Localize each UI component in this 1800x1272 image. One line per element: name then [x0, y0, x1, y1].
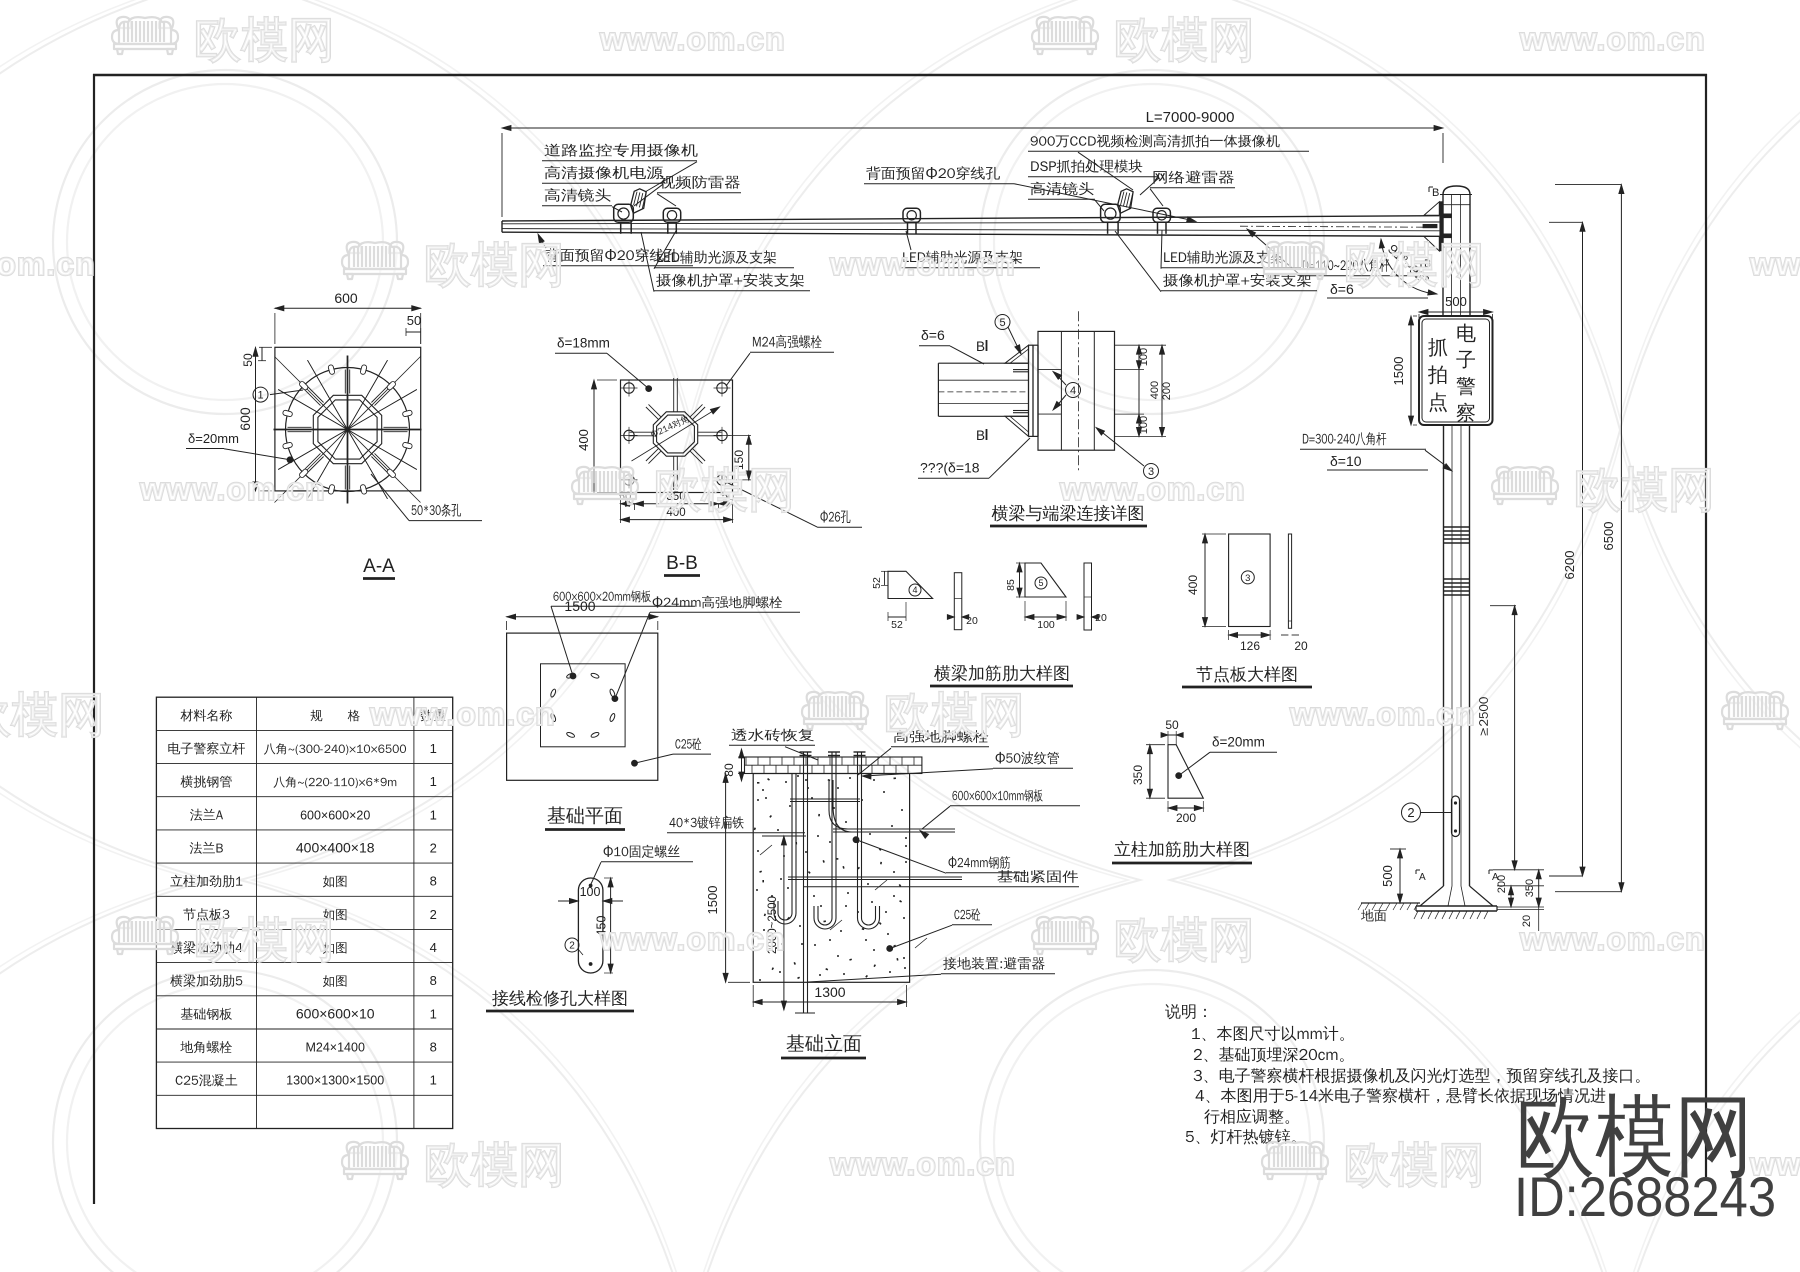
svg-text:100: 100	[1138, 416, 1150, 434]
svg-text:B: B	[976, 428, 985, 443]
balloon 2 access	[565, 938, 579, 952]
ground line	[1361, 902, 1420, 904]
svg-text:1500: 1500	[1391, 357, 1406, 386]
pole shaft below sign	[1443, 425, 1445, 886]
dimension L=7000-9000	[502, 127, 1443, 129]
tie bar lower	[788, 876, 962, 878]
svg-text:δ=6: δ=6	[1330, 281, 1354, 297]
svg-text:www.om.cn: www.om.cn	[1289, 696, 1476, 732]
svg-text:400: 400	[1186, 575, 1200, 595]
foundation plan outer square	[507, 633, 658, 780]
dim 6500	[1620, 185, 1622, 892]
svg-text:1300: 1300	[814, 984, 845, 1000]
label M24 bolt	[753, 335, 822, 349]
svg-text:50: 50	[1165, 718, 1179, 732]
gusset bottom at beam end	[1424, 237, 1439, 252]
left bolt hook	[791, 774, 793, 914]
label: road camera	[545, 143, 698, 157]
foundation plan dim 1500	[507, 616, 658, 618]
svg-text:100: 100	[1037, 619, 1055, 631]
40x3 flat iron horizontal	[833, 828, 955, 830]
label: HD camera power	[545, 166, 663, 180]
LED flash unit 1	[663, 208, 680, 234]
svg-text:5: 5	[1038, 578, 1043, 588]
svg-text:ID:2688243: ID:2688243	[1514, 1165, 1776, 1228]
title node plate	[1196, 666, 1296, 683]
notes 说明	[1165, 1004, 1206, 1019]
svg-text:400×400×18: 400×400×18	[296, 840, 375, 856]
dim 500 above ground	[1399, 849, 1401, 903]
pole top shaft	[1442, 195, 1444, 317]
svg-text:1: 1	[430, 1006, 437, 1021]
svg-text:www.om.cn: www.om.cn	[829, 1146, 1016, 1182]
label 600x600x20 plate	[553, 590, 650, 602]
label: network arrester	[1153, 170, 1233, 183]
svg-text:δ=18mm: δ=18mm	[557, 336, 610, 351]
label C25 concrete (plan)	[675, 738, 701, 750]
gusset 5 edge strip	[1084, 563, 1092, 630]
flange bolts	[1443, 214, 1452, 218]
pole bands	[1444, 526, 1470, 528]
label phi50 tube	[996, 752, 1059, 765]
cantilever beam (elevation)	[502, 216, 1440, 221]
B-B bolts	[624, 383, 634, 393]
svg-text:200: 200	[1496, 875, 1508, 893]
svg-text:2: 2	[1407, 805, 1414, 820]
node plate edge strip	[1288, 534, 1291, 628]
svg-text:δ=20mm: δ=20mm	[1212, 735, 1265, 750]
svg-text:www.om.cn: www.om.cn	[1519, 921, 1706, 957]
label: rear reserved hole (bottom-left)	[545, 248, 679, 262]
elevation concrete block	[753, 774, 909, 983]
label 600x600x10 plate	[952, 789, 1042, 802]
label: camera housing 2	[1163, 273, 1311, 287]
svg-text:100: 100	[1138, 348, 1150, 366]
svg-text:6500: 6500	[1601, 522, 1616, 551]
light watermark lattice: sofa logos and www.om.cn	[112, 17, 330, 63]
A-A dim 600 left	[255, 347, 257, 491]
node plate dim 126	[1229, 634, 1271, 636]
label: camera housing 1	[656, 273, 804, 287]
node plate 3	[1229, 534, 1271, 627]
svg-text:2: 2	[430, 841, 437, 856]
svg-text:3: 3	[1245, 573, 1250, 584]
A-A pole octagon	[313, 395, 381, 463]
svg-text:200: 200	[1176, 811, 1196, 825]
svg-text:1: 1	[430, 1073, 437, 1088]
B-B dim 400 left	[593, 380, 595, 493]
balloon 4	[1066, 383, 1081, 398]
svg-text:8: 8	[430, 1040, 437, 1055]
svg-text:www.om.cn: www.om.cn	[1749, 246, 1800, 282]
svg-text:85: 85	[1005, 579, 1017, 591]
connection: top gusset 5	[1005, 345, 1029, 363]
svg-text:δ=20mm: δ=20mm	[188, 431, 239, 446]
svg-text:126: 126	[1240, 639, 1260, 653]
connection: beam tube	[938, 362, 1028, 364]
A-A spokes	[274, 429, 422, 431]
balloon 5	[995, 315, 1010, 330]
bolt top nuts	[800, 751, 812, 753]
label: HD lens	[545, 188, 611, 202]
connection right dims 100/400/200/100	[1115, 344, 1145, 346]
A-A dim 600 top	[275, 307, 421, 309]
B-B dim 400 bottom	[621, 519, 733, 521]
label phi10 screw	[604, 845, 680, 858]
label phi26 hole	[820, 510, 850, 523]
B-B ribs	[698, 435, 722, 437]
label C25 concrete elev	[954, 908, 980, 920]
svg-text:600×600×10: 600×600×10	[296, 1005, 375, 1021]
svg-text:www.om.cn: www.om.cn	[829, 246, 1016, 282]
svg-text:www.om.cn: www.om.cn	[1059, 471, 1246, 507]
balloon 3	[1144, 464, 1159, 479]
pole base plate	[1416, 905, 1497, 907]
svg-text:50: 50	[407, 313, 421, 328]
svg-text:www.om.cn: www.om.cn	[369, 696, 556, 732]
label foundation fastener	[997, 870, 1078, 883]
gusset top at beam end	[1424, 202, 1439, 215]
foundation plan plate square	[541, 664, 626, 747]
svg-text:B: B	[976, 339, 985, 354]
svg-text:5: 5	[999, 317, 1005, 329]
big dark watermark 欧模网 ID:2688243	[1521, 1094, 1745, 1180]
right dims 200/350/20 at base	[1497, 885, 1544, 887]
svg-text:???(δ=18: ???(δ=18	[920, 460, 980, 476]
svg-text:A: A	[1419, 872, 1426, 883]
elevation dim 1500	[725, 774, 727, 983]
A-A flange circle	[286, 368, 410, 492]
svg-text:www.om.cn: www.om.cn	[1519, 21, 1706, 57]
svg-text:www.om.cn: www.om.cn	[0, 246, 96, 282]
pole top cap	[1443, 186, 1470, 195]
label phi24 rebar	[949, 856, 1011, 869]
svg-text:8: 8	[430, 973, 437, 988]
grounding flat iron	[803, 752, 805, 1013]
svg-text:20: 20	[1294, 639, 1308, 653]
title column stiffener	[1114, 841, 1248, 858]
svg-text:500: 500	[1445, 294, 1467, 309]
balloon 1	[253, 387, 268, 402]
label: LED aux light 2	[1164, 250, 1283, 264]
tie bar upper	[790, 798, 860, 800]
svg-text:600×600×20: 600×600×20	[300, 808, 370, 822]
dim 500 (sign width)	[1419, 311, 1493, 313]
title access hole	[492, 990, 626, 1007]
title foundation plan	[548, 806, 623, 824]
connection: end beam block	[1038, 331, 1115, 450]
svg-text:100: 100	[580, 885, 601, 899]
A-A rib double lines	[384, 431, 408, 433]
anchor bolts with hooks	[831, 752, 833, 918]
svg-text:1: 1	[430, 774, 437, 789]
svg-text:350: 350	[1131, 765, 1145, 785]
connection: end plate	[1028, 345, 1030, 436]
elevation brick layer	[745, 757, 922, 774]
right vertical dim >=2500	[1514, 606, 1516, 870]
LED flash unit middle	[903, 208, 920, 234]
svg-text:4: 4	[430, 940, 437, 955]
label: DSP module	[1031, 159, 1142, 172]
pole access slot (2)	[1452, 796, 1460, 837]
foundation anchor slots	[609, 713, 616, 722]
beam flange plate at pole	[1440, 202, 1443, 252]
label phi24 anchor bolt	[653, 596, 783, 609]
svg-text:4: 4	[912, 585, 917, 595]
access hole slot	[578, 878, 603, 973]
svg-text:www.om.cn: www.om.cn	[139, 471, 326, 507]
label: LED aux light 1	[657, 250, 776, 264]
svg-text:M24×1400: M24×1400	[305, 1041, 364, 1055]
svg-text:1: 1	[430, 807, 437, 822]
label 40x3 flat iron	[669, 816, 743, 829]
svg-text:6200: 6200	[1562, 551, 1577, 580]
camera C1 road-monitoring	[614, 189, 647, 234]
connection: bottom gusset 5	[1005, 416, 1029, 436]
svg-text:1: 1	[430, 741, 437, 756]
svg-text:δ=6: δ=6	[921, 327, 945, 343]
B-B pole octagon	[653, 412, 697, 456]
sign board 电子警察抓拍点	[1419, 316, 1493, 425]
label: pole spec D=300-240	[1303, 432, 1386, 445]
dim 1500 (sign height)	[1410, 316, 1412, 425]
svg-text:600: 600	[237, 407, 253, 431]
svg-text:400: 400	[576, 429, 591, 451]
A-A slot holes on rim	[402, 442, 412, 449]
svg-text:B-B: B-B	[666, 553, 698, 574]
label permeable brick	[731, 728, 813, 741]
svg-text:52: 52	[871, 577, 883, 589]
label: 9MP CCD camera	[1031, 134, 1280, 148]
stiffener dim 350	[1149, 745, 1151, 799]
label: HD lens 2	[1031, 182, 1094, 196]
connection: rib bars 4	[1013, 369, 1029, 371]
svg-text:8: 8	[430, 874, 437, 889]
pole base flare	[1420, 886, 1444, 906]
svg-text:52: 52	[891, 619, 903, 631]
svg-text:www.om.cn: www.om.cn	[599, 21, 786, 57]
gusset 4 edge strip	[954, 573, 962, 630]
stiffener dim 200	[1168, 807, 1203, 809]
label: video lightning protector	[659, 175, 740, 189]
svg-text:δ=10: δ=10	[1330, 453, 1362, 469]
drawing frame border	[93, 74, 1707, 77]
A-A flange square plate	[275, 347, 421, 491]
material table frame	[156, 697, 452, 1128]
column stiffener plate	[1168, 745, 1203, 799]
svg-text:200: 200	[1161, 382, 1173, 400]
svg-text:1: 1	[257, 390, 263, 402]
title gusset detail	[934, 665, 1068, 682]
label anchor bolt elev	[894, 730, 989, 743]
B-B diagonal note line	[632, 407, 720, 461]
camera C2 checkpoint	[1101, 189, 1134, 234]
label: rear reserved hole (top)	[866, 166, 1000, 180]
gusset 5 plate	[1025, 563, 1066, 597]
svg-text:600: 600	[334, 290, 358, 306]
svg-text:80: 80	[722, 763, 736, 777]
svg-text:2: 2	[569, 941, 575, 952]
background faint watermark circles and stars	[53, 70, 397, 414]
label 50*30 slot	[411, 504, 461, 517]
svg-text:www.om.cn: www.om.cn	[599, 921, 786, 957]
svg-text:400: 400	[1149, 381, 1161, 399]
svg-text:50: 50	[241, 353, 255, 367]
LED flash unit 2	[1153, 208, 1170, 234]
svg-text:1500: 1500	[705, 886, 720, 915]
B-B flange plate 400x400	[621, 380, 733, 493]
access hole dim 450	[610, 878, 612, 973]
svg-text:500: 500	[1380, 865, 1395, 887]
label: LED aux light mid (faint)	[903, 250, 1022, 264]
label grounding device	[943, 957, 1045, 970]
B-B dims 50/350/50 bottom	[620, 496, 622, 523]
elevation dim 2000-2500	[783, 836, 785, 1010]
gusset 4 plate	[888, 571, 933, 598]
svg-text:350: 350	[1524, 879, 1536, 897]
connection: centerline dashed	[1077, 311, 1079, 470]
concrete speckles	[754, 775, 907, 981]
node plate dim 400	[1204, 534, 1206, 627]
elevation dim 1300	[753, 1001, 906, 1003]
angle arc 91-92 deg	[1381, 239, 1437, 294]
svg-text:1300×1300×1500: 1300×1300×1500	[286, 1074, 384, 1088]
svg-text:4: 4	[1070, 385, 1076, 397]
svg-text:B: B	[1432, 187, 1439, 199]
svg-text:L=7000-9000: L=7000-9000	[1146, 109, 1235, 126]
svg-text:A-A: A-A	[363, 556, 395, 577]
B-B dim 150 right	[748, 435, 750, 480]
title connection detail	[992, 505, 1143, 522]
title foundation elevation	[787, 1034, 862, 1052]
dim 6200	[1582, 222, 1584, 876]
label: beam spec D=110-220	[1303, 259, 1390, 272]
svg-text:2: 2	[430, 907, 437, 922]
